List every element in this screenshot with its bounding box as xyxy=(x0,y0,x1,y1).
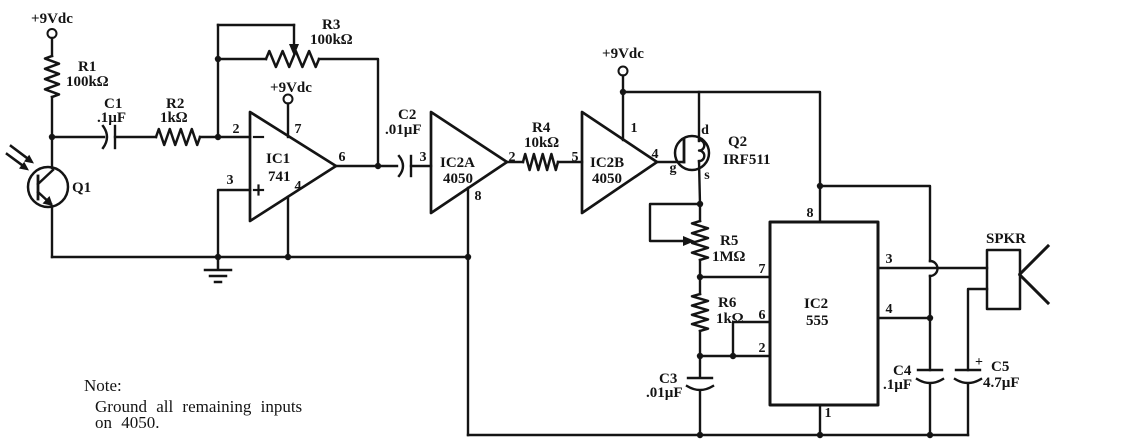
svg-text:+9Vdc: +9Vdc xyxy=(270,80,312,96)
ground rail (left) xyxy=(52,256,469,258)
wire junction to R3 xyxy=(218,58,266,60)
wire R1 to node A xyxy=(51,97,53,137)
wire node to C3 xyxy=(699,356,701,377)
wire Q2 drain to rail xyxy=(698,92,700,141)
svg-text:R6: R6 xyxy=(718,295,737,311)
wire R5 to node pin7 xyxy=(699,260,701,294)
R4 value label 10k xyxy=(524,120,559,151)
buffer IC2A 4050 xyxy=(431,112,507,213)
svg-text:5: 5 xyxy=(572,150,579,165)
node C3 bottom junction xyxy=(697,432,703,438)
svg-text:3: 3 xyxy=(420,150,427,165)
capacitor C5 xyxy=(955,370,981,383)
resistor R6 xyxy=(692,294,708,331)
svg-text:7: 7 xyxy=(295,122,302,137)
node rail branch junction xyxy=(817,183,823,189)
wire C3 to bottom rail xyxy=(699,391,701,435)
wire supply to R1 xyxy=(51,38,53,56)
wire R3 to output node xyxy=(319,59,378,166)
wire 555 pin 6 loop xyxy=(733,322,770,356)
svg-text:100kΩ: 100kΩ xyxy=(310,32,353,48)
svg-text:Q2: Q2 xyxy=(728,134,747,150)
node R6/C3 pin2 junction xyxy=(697,353,703,359)
node output junction xyxy=(375,163,381,169)
wire Q2 source down xyxy=(699,161,700,204)
svg-text:3: 3 xyxy=(886,252,893,267)
svg-text:4050: 4050 xyxy=(592,171,622,187)
svg-text:.1µF: .1µF xyxy=(883,377,912,393)
wire R6 to node pin2 xyxy=(699,331,701,356)
wire hop over pin 3 line xyxy=(930,261,938,276)
svg-text:6: 6 xyxy=(759,308,766,323)
svg-text:R3: R3 xyxy=(322,17,340,33)
svg-text:IC2: IC2 xyxy=(804,296,828,312)
resistor R4 xyxy=(523,154,558,170)
wire supply terminal to rail xyxy=(622,76,624,93)
svg-text:C2: C2 xyxy=(398,107,416,123)
svg-text:Note:: Note: xyxy=(84,376,122,395)
wire IC2A pin 8 to ground rail and bottom rail xyxy=(467,188,469,435)
capacitor C3 xyxy=(687,378,713,390)
wire node A to Q1 collector xyxy=(51,137,53,168)
R6 value label 1k xyxy=(716,295,744,327)
node R5/R6 pin 7 junction xyxy=(697,274,703,280)
wire 555 pin 4 xyxy=(878,317,930,319)
node pin4 ground junction xyxy=(285,254,291,260)
wire IC1 pin 3 to ground xyxy=(218,190,250,257)
op-amp IC1 741 xyxy=(250,112,336,221)
wire IC1 pin 4 to ground xyxy=(287,197,289,257)
R1 value label 100k xyxy=(66,59,109,90)
wire speaker to C5 xyxy=(968,289,987,370)
wire 555 pin 3 to speaker xyxy=(878,267,987,269)
IC2 555 timer box xyxy=(770,222,878,405)
wire C5 to bottom rail xyxy=(967,384,969,435)
svg-text:1: 1 xyxy=(631,121,638,136)
wire 555 pin 1 to bottom rail xyxy=(819,405,821,435)
wire IC2A output xyxy=(507,161,523,163)
R3 wiper arrow xyxy=(289,25,299,56)
svg-text:4050: 4050 xyxy=(443,171,473,187)
capacitor C4 xyxy=(917,370,943,383)
svg-text:3: 3 xyxy=(227,173,234,188)
svg-text:R4: R4 xyxy=(532,120,551,136)
speaker SPKR xyxy=(986,231,1048,309)
node pin2 / feedback junction xyxy=(215,134,221,140)
node pin3 ground junction xyxy=(215,254,221,260)
node source / wiper loop junction xyxy=(697,201,703,207)
resistor R3 (potentiometer) xyxy=(266,51,319,67)
svg-text:g: g xyxy=(670,161,677,176)
svg-text:4: 4 xyxy=(295,179,302,194)
ground symbol xyxy=(205,257,231,282)
svg-text:555: 555 xyxy=(806,313,829,329)
+9Vdc terminal above IC1 pin 7 xyxy=(270,80,312,104)
wire C4 column down xyxy=(929,276,931,370)
C1 value label .1uF xyxy=(97,96,126,126)
svg-text:1kΩ: 1kΩ xyxy=(716,311,744,327)
wire node to 555 pin 7 xyxy=(700,276,770,278)
wire rail branch to C4 column xyxy=(820,186,930,261)
+9Vdc supply terminal (right) xyxy=(602,46,644,76)
svg-text:4: 4 xyxy=(652,147,659,162)
C5 value label 4.7uF with polarity xyxy=(975,355,1020,391)
svg-text:SPKR: SPKR xyxy=(986,231,1026,247)
C3 value label .01uF xyxy=(646,371,683,401)
C4 value label .1uF xyxy=(883,363,912,393)
wire R2 to IC1 pin 2 xyxy=(200,136,250,138)
wire Q1 emitter to ground rail xyxy=(51,207,53,257)
svg-text:+9Vdc: +9Vdc xyxy=(602,46,644,62)
capacitor C2 xyxy=(399,156,411,176)
R5 wiper loop wire xyxy=(650,204,700,241)
node rail supply junction xyxy=(620,89,626,95)
R5 wiper arrowhead xyxy=(683,236,695,246)
node pin4 junction xyxy=(927,315,933,321)
svg-text:100kΩ: 100kΩ xyxy=(66,74,109,90)
svg-text:s: s xyxy=(704,168,710,183)
svg-text:2: 2 xyxy=(233,122,240,137)
svg-text:741: 741 xyxy=(268,169,291,185)
wire feedback left vertical xyxy=(217,25,219,137)
R2 value label 1k xyxy=(160,96,188,126)
node C4 bottom junction xyxy=(927,432,933,438)
phototransistor Q1 xyxy=(7,146,68,207)
wire IC1 pin 7 xyxy=(287,104,289,138)
svg-text:7: 7 xyxy=(759,262,766,277)
R5 value label 1M xyxy=(712,233,746,265)
R3 value label 100k xyxy=(310,17,353,48)
svg-text:4.7µF: 4.7µF xyxy=(983,375,1020,391)
wire C1 to R2 xyxy=(115,136,156,138)
svg-text:.1µF: .1µF xyxy=(97,110,126,126)
svg-text:+9Vdc: +9Vdc xyxy=(31,11,73,27)
wire feedback top xyxy=(218,24,294,26)
svg-text:on 4050.: on 4050. xyxy=(95,413,160,432)
svg-text:4: 4 xyxy=(886,302,893,317)
svg-text:+: + xyxy=(975,355,983,370)
capacitor C1 xyxy=(103,126,115,148)
svg-text:C5: C5 xyxy=(991,359,1009,375)
Q2 reference label IRF511 xyxy=(723,134,771,168)
svg-text:8: 8 xyxy=(807,206,814,221)
resistor R1 xyxy=(45,56,59,97)
wire to R5 xyxy=(699,204,701,221)
svg-text:2: 2 xyxy=(759,341,766,356)
note text xyxy=(84,376,302,432)
resistor R2 xyxy=(156,129,200,145)
svg-text:10kΩ: 10kΩ xyxy=(524,135,559,151)
svg-text:.01µF: .01µF xyxy=(385,122,422,138)
svg-text:1kΩ: 1kΩ xyxy=(160,110,188,126)
wire node A to C1 xyxy=(52,136,104,138)
node R3 left junction xyxy=(215,56,221,62)
svg-text:IC2A: IC2A xyxy=(440,155,475,171)
svg-text:IRF511: IRF511 xyxy=(723,152,771,168)
svg-text:d: d xyxy=(701,123,709,138)
transistor Q2 IRF511 xyxy=(675,136,709,170)
node ground rail / pin8 drop junction xyxy=(465,254,471,260)
node pin6/pin2 junction xyxy=(730,353,736,359)
wire C2 to IC2A pin 3 xyxy=(411,165,431,167)
wire node to 555 pin 2 xyxy=(700,355,770,357)
buffer IC2B 4050 xyxy=(582,112,657,213)
node pin1 bottom junction xyxy=(817,432,823,438)
svg-text:R1: R1 xyxy=(78,59,96,75)
svg-text:6: 6 xyxy=(339,150,346,165)
+9V top rail to 555 pin 8 xyxy=(623,92,820,222)
wire R4 to IC2B pin 5 xyxy=(558,161,582,163)
wire C4 to bottom rail xyxy=(929,384,931,435)
svg-text:8: 8 xyxy=(475,189,482,204)
svg-text:IC1: IC1 xyxy=(266,151,290,167)
C2 value label .01uF xyxy=(385,107,422,138)
node A junction (R1/C1/Q1) xyxy=(49,134,55,140)
svg-text:.01µF: .01µF xyxy=(646,385,683,401)
resistor R5 (potentiometer) xyxy=(692,221,708,260)
bottom ground rail xyxy=(468,434,968,436)
svg-text:1: 1 xyxy=(825,406,832,421)
svg-text:1MΩ: 1MΩ xyxy=(712,249,746,265)
+9Vdc supply terminal (left) xyxy=(31,11,73,38)
svg-text:R5: R5 xyxy=(720,233,738,249)
svg-text:Q1: Q1 xyxy=(72,180,91,196)
wire IC2B pin 1 to rail xyxy=(622,92,624,140)
wire IC1 output pin 6 xyxy=(336,165,397,167)
svg-text:IC2B: IC2B xyxy=(590,155,624,171)
wire IC2B pin 4 to Q2 gate xyxy=(657,161,684,163)
